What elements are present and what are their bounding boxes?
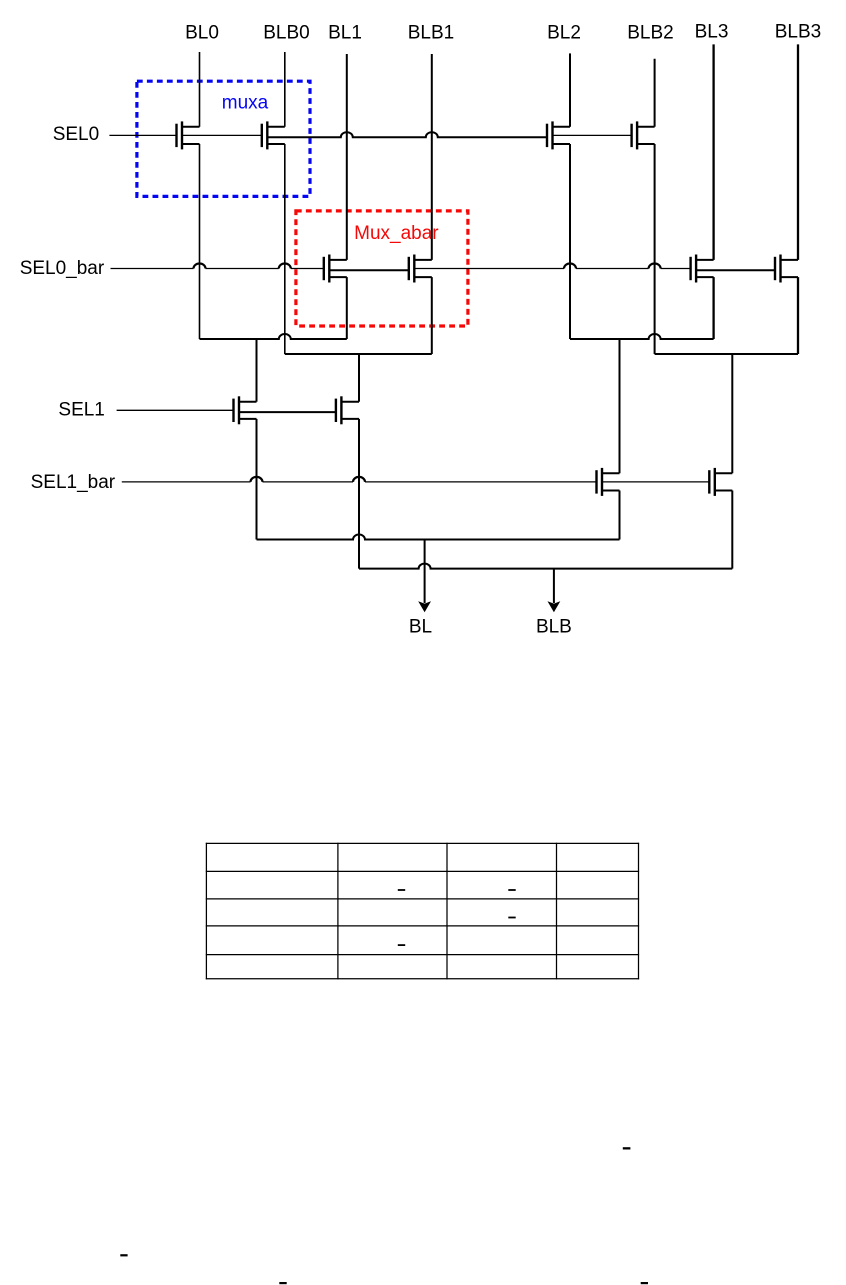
- svg-text:BL: BL: [409, 617, 432, 638]
- wire BL1 upper vertical: [346, 54, 348, 260]
- wire SEL0_bar link T6-T7 with hops over BL2 BLB2: [414, 268, 690, 270]
- svg-text:BLB: BLB: [536, 617, 572, 638]
- wire BL output arrow: [418, 540, 431, 613]
- wire BLB3 upper vertical: [797, 44, 799, 260]
- transistor T1 (BL0, SEL0): [177, 121, 200, 149]
- svg-text:BLB0: BLB0: [263, 23, 309, 44]
- wire tap BLB2-3 pair to T10: [731, 354, 733, 473]
- wire BLB output arrow: [548, 569, 561, 613]
- wire BL0 lower vertical: [199, 144, 201, 339]
- wire BL pair node left (BL0-BL1) with hop over BLB0: [200, 334, 347, 339]
- wire BL2 lower vertical: [569, 144, 571, 339]
- wire BLB pair node left (BLB0-BLB1): [285, 353, 432, 355]
- wire tap BL2-3 pair to T9: [619, 339, 621, 473]
- transistor TB (BLB select, SEL1): [336, 396, 359, 424]
- wire BLB2 upper vertical: [654, 59, 656, 127]
- table cell dash r2c2: [398, 889, 405, 891]
- wire BL1 lower vertical: [346, 277, 348, 339]
- transistor T9 (BL select, SEL1_bar): [597, 468, 620, 496]
- Mux_abar dashed selection box: [296, 211, 468, 326]
- transistor T10 (BLB select, SEL1_bar): [709, 468, 732, 496]
- wire SEL0 gate link T3-T4: [553, 134, 632, 136]
- transistor T5 (BL1, SEL0_bar): [324, 255, 347, 283]
- transistor T7 (BL3, SEL0_bar): [691, 255, 714, 283]
- wire BL3 upper vertical: [712, 44, 714, 260]
- stray dash 3: [279, 1282, 286, 1284]
- transistor T6 (BLB1, SEL0_bar): [409, 255, 432, 283]
- wire BLB1 lower vertical: [431, 277, 433, 354]
- transistor TA (BL select, SEL1): [234, 396, 257, 424]
- table cell dash r2c3: [508, 889, 515, 891]
- svg-text:Mux_abar: Mux_abar: [354, 223, 439, 244]
- table cell dash r4c2: [398, 944, 405, 946]
- wire SEL0_bar feed with hops over BL0 BLB0: [111, 268, 324, 270]
- wire SEL1 feed: [117, 409, 234, 411]
- wire tap BLB pair to TB: [358, 354, 360, 402]
- svg-text:BLB2: BLB2: [627, 23, 673, 44]
- transistor T3 (BL2, SEL0): [547, 121, 570, 149]
- wire BL3 lower vertical: [712, 277, 714, 339]
- wire BL0 upper vertical: [199, 52, 201, 127]
- wire SEL1_bar feed with hops: [122, 481, 597, 483]
- wire TA bottom vertical: [256, 419, 258, 540]
- wire SEL0_bar gate link T5-T6: [329, 269, 409, 271]
- hop over BLB2: [649, 264, 661, 269]
- wire BL pair node right (BL2-BL3) with hop over BLB2: [570, 334, 714, 339]
- svg-text:BLB3: BLB3: [775, 21, 821, 42]
- transistor T2 (BLB0, SEL0): [262, 121, 285, 149]
- wire BLB0 upper vertical: [284, 52, 286, 127]
- wire SEL0_bar gate link T7-T8: [696, 269, 775, 271]
- svg-text:muxa: muxa: [222, 93, 269, 114]
- wire T9 bottom vertical: [619, 491, 621, 540]
- wire BL output rail with hop over TB vertical: [257, 535, 620, 540]
- svg-text:BLB1: BLB1: [408, 23, 454, 44]
- svg-text:BL0: BL0: [185, 23, 219, 44]
- wire BLB0 lower vertical: [284, 144, 286, 354]
- svg-text:BL3: BL3: [695, 21, 729, 42]
- stray dash 4: [641, 1282, 648, 1284]
- wire BLB output rail with hop over BL arrow: [359, 564, 732, 569]
- muxa dashed selection box: [137, 81, 310, 196]
- svg-text:SEL1: SEL1: [58, 400, 104, 421]
- table grid: [206, 843, 639, 980]
- hop over BL2: [564, 264, 576, 269]
- stray dash 2: [120, 1254, 127, 1256]
- svg-text:BL2: BL2: [547, 23, 581, 44]
- wire SEL0 gate link T2-T3 with hops over BL1 BLB1: [267, 132, 547, 137]
- hop over TB drain vertical: [353, 477, 365, 482]
- wire BLB pair node right (BLB2-BLB3): [655, 353, 798, 355]
- wire SEL1 gate link TA-TB: [239, 411, 336, 413]
- wire BLB2 lower vertical: [654, 144, 656, 354]
- svg-text:SEL0: SEL0: [53, 124, 99, 145]
- svg-text:SEL0_bar: SEL0_bar: [20, 258, 105, 279]
- transistor T4 (BLB2, SEL0): [632, 121, 655, 149]
- hop over BL0: [194, 264, 206, 269]
- wire SEL0 feed: [109, 134, 176, 136]
- wire BLB3 lower vertical: [797, 277, 799, 354]
- wire BL2 upper vertical: [569, 53, 571, 126]
- table cell dash r3c3: [508, 917, 515, 919]
- transistor T8 (BLB3, SEL0_bar): [775, 255, 798, 283]
- svg-text:BL1: BL1: [328, 23, 362, 44]
- wire BLB1 upper vertical: [431, 54, 433, 260]
- wire SEL0 gate link T1-T2: [182, 134, 262, 136]
- wire SEL1_bar gate link T9-T10: [602, 481, 709, 483]
- svg-text:SEL1_bar: SEL1_bar: [31, 472, 116, 493]
- wire T10 bottom vertical: [731, 491, 733, 569]
- hop over TA drain vertical: [251, 477, 263, 482]
- stray dash 1: [623, 1147, 631, 1149]
- wire tap BL pair to TA: [256, 339, 258, 402]
- wire TB bottom vertical: [358, 419, 360, 569]
- hop over BLB0: [279, 264, 291, 269]
